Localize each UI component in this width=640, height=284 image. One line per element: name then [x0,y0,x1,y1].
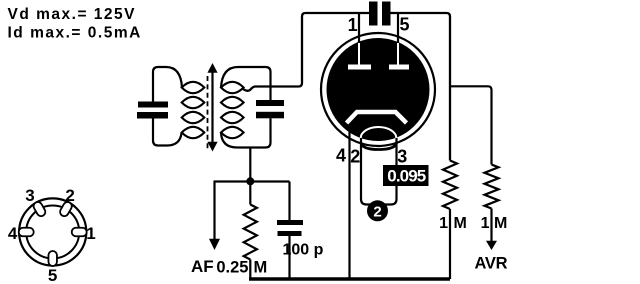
wire AVR tap [450,86,492,164]
wire left tank loop bottom [153,119,182,146]
svg-text:3: 3 [397,147,407,167]
svg-text:Vd max.= 125V: Vd max.= 125V [8,6,137,23]
svg-text:AVR: AVR [475,255,508,273]
socket pin 5 [48,251,57,266]
svg-text:0.095: 0.095 [387,167,425,186]
wire grid lead from L2 top to top-left rail [243,13,370,91]
svg-text:2: 2 [65,186,74,205]
filament circle black bottom arc [361,143,397,150]
text ratings Vd/Id max [8,6,142,42]
label 0.25M [216,259,267,277]
wire right tank loop top [221,67,271,100]
svg-text:2: 2 [373,203,381,220]
wire filament pin 3 U right [382,138,397,205]
tuning double arrow [207,63,217,152]
svg-text:Id max.= 0.5mA: Id max.= 0.5mA [8,24,142,41]
socket pin labels [8,186,96,284]
svg-text:1: 1 [348,15,358,35]
wire junction horizontal [214,180,290,182]
tube V1 envelope ring [321,33,435,146]
svg-text:2: 2 [350,147,360,167]
svg-text:5: 5 [399,15,409,35]
anode plates (white) inside tube [348,65,409,70]
AVR arrow [486,241,497,250]
svg-text:1: 1 [439,215,448,232]
svg-text:AF: AF [191,257,214,276]
wire anode pin 1 lead [358,13,360,45]
capacitor C2 (right tuning cap) plates [256,100,284,118]
wire filament pin 2 U left [361,138,374,205]
inductor L2 (right winding) [221,82,244,138]
socket pin 1 [72,228,87,237]
svg-text:1: 1 [86,224,95,243]
svg-text:4: 4 [336,146,346,166]
capacitor C4 100p [277,182,303,280]
wire left tank loop top [153,67,182,102]
filament current label 0.095 box [383,165,429,186]
filament circle white dome part [361,127,397,149]
svg-text:M: M [494,215,507,232]
bottom rail [249,277,450,281]
resistor R2 1M (left) [443,161,457,280]
capacitor C3 (top coupling cap) plates [369,2,391,26]
tube V1 inner disc [327,38,430,141]
wire anode pin 5 lead [397,13,399,45]
svg-text:M: M [454,215,467,232]
svg-text:3: 3 [25,186,34,205]
svg-text:1: 1 [481,215,490,232]
cathode (white thick bridge) [347,112,407,123]
wire lead from L2 bottom to junction [249,148,251,182]
inductor L1 (left winding) [182,82,205,138]
battery 2V circle [367,200,388,221]
socket pin 4 [19,228,34,237]
svg-text:M: M [254,259,268,277]
svg-text:100 p: 100 p [283,242,324,259]
tube socket base diagram [19,198,86,265]
core dashed line [207,76,209,150]
wire top rail right with corner down to bottom rail [391,13,451,161]
capacitor C1 (left tuning cap) plates [137,102,168,119]
label 1M left [439,215,467,232]
svg-text:5: 5 [48,266,57,284]
wire cathode pin 4 down to bottom rail [348,126,350,279]
socket pin 3 [32,200,47,217]
node junction dot [246,177,254,185]
white wire stubs to anodes [359,43,398,66]
svg-text:4: 4 [8,224,18,243]
wire AF branch with arrow [209,182,220,251]
socket pin 2 [59,200,74,217]
resistor R1 0.25M [244,182,257,280]
svg-text:0.25: 0.25 [216,259,248,277]
label 1M right [481,215,508,232]
resistor R3 1M (right) [485,165,499,242]
wire right tank loop bottom [221,118,271,147]
